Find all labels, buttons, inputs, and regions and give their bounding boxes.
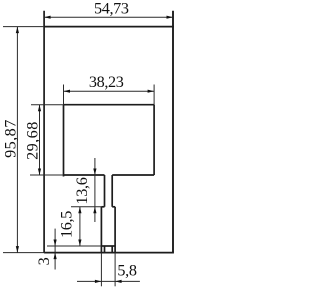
narrow neck left edge [104,175,106,207]
arrow 29,68 bottom [38,169,41,176]
outer rect top edge [44,26,174,28]
extension below bottom right for 5,8 [114,253,116,287]
inner rect left edge [63,105,65,177]
extension of top edge to left [3,26,44,28]
extension of bottom edge to left [3,252,44,254]
arrow 38,23 right [148,90,155,93]
extension below bottom left for 5,8 [100,253,102,287]
arrow 3 top (points down) [54,240,57,247]
arrow 16,5 top (points up) [78,207,81,214]
extension of inner top edge to left [31,104,64,106]
arrow 16,5 bottom (points down) [78,240,81,247]
outer rect right edge [172,11,174,253]
svg-text:54,73: 54,73 [94,0,129,18]
extension above inner rect left for 38,23 [63,85,65,105]
svg-text:3: 3 [35,257,53,265]
svg-text:13,6: 13,6 [73,177,91,204]
arrow 54,73 right [167,16,174,19]
wide neck right edge [114,207,116,253]
extension above inner rect right for 38,23 [153,85,155,105]
inner rect bottom edge left part [64,174,105,176]
shoulder step left [101,206,104,208]
svg-text:16,5: 16,5 [58,211,76,238]
dimension line 38,23 [64,90,155,92]
outer rect bottom edge [44,252,174,254]
dimension line 5,8 [77,280,140,282]
wide neck left edge [100,207,102,253]
arrow 5,8 right (points left) [115,280,122,283]
arrow 3 bottom (points up) [54,253,57,260]
extension of inner bottom edge to left [30,174,64,176]
dimension line 13,6 [94,158,96,222]
arrow 38,23 left [64,90,71,93]
arrow 54,73 left [44,16,51,19]
dimension line 16,5 [79,207,81,246]
inner rect bottom edge right part [112,174,154,176]
narrow neck right edge [111,175,113,207]
svg-text:95,87: 95,87 [2,119,20,158]
outer rect left edge [43,11,45,253]
bottom narrow channel left [104,246,106,253]
svg-text:5,8: 5,8 [117,262,136,280]
inner rect top edge [64,104,155,106]
arrow 5,8 left (points right) [95,280,102,283]
arrow 29,68 top [38,105,41,112]
arrow 13,6 bottom (points up) [93,207,96,214]
extension of groove line to left [47,245,101,247]
bottom narrow channel right [111,246,113,253]
svg-text:29,68: 29,68 [23,121,41,160]
dimension line 29,68 [39,105,41,175]
arrow 95,87 top [16,27,19,33]
groove line across neck [101,245,115,247]
dimension line 3 [54,229,56,270]
arrow 95,87 bottom [16,246,19,253]
extension of shoulder step to left [71,206,101,208]
dimension line 54,73 [44,16,173,18]
dimension line 95,87 [16,27,18,253]
svg-text:38,23: 38,23 [89,73,124,91]
inner rect right edge [153,105,155,175]
shoulder step right [112,206,115,208]
arrow 13,6 top (points down) [93,169,96,176]
